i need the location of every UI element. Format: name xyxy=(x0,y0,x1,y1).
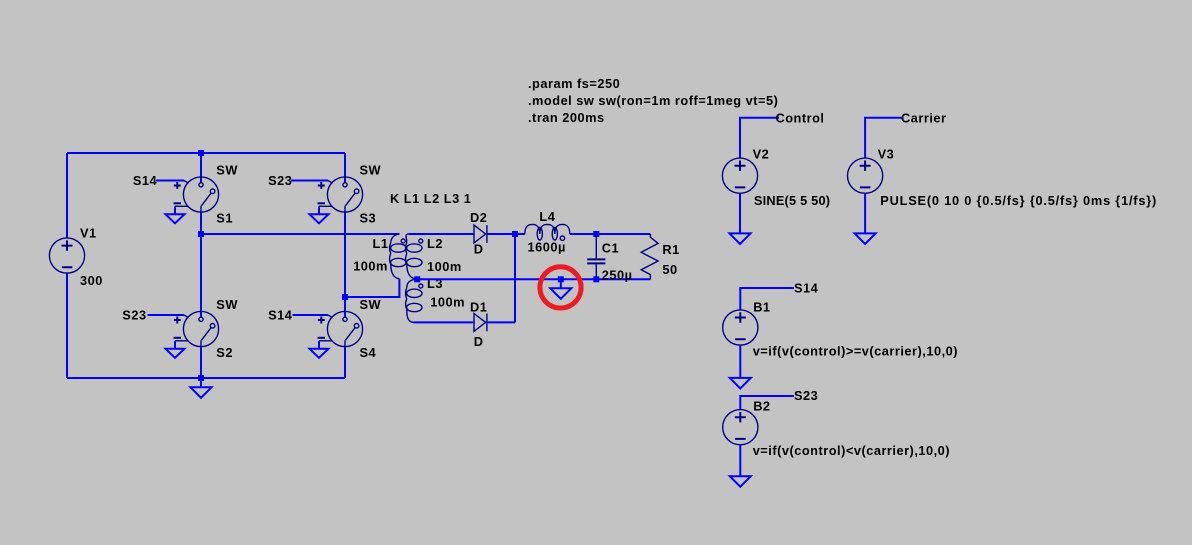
svg-text:C1: C1 xyxy=(602,240,619,255)
wire B2 bottom xyxy=(739,445,741,476)
voltage source V3 xyxy=(848,146,1158,208)
behavioral source B1 xyxy=(723,299,958,358)
wire bottom rail xyxy=(67,377,345,379)
wire V3 bottom xyxy=(864,193,866,233)
wire L3 to D1 anode xyxy=(414,321,475,323)
inductor L4 xyxy=(525,209,570,254)
diode D2 xyxy=(470,210,487,257)
ground (B2) xyxy=(730,476,751,487)
svg-text:SW: SW xyxy=(216,297,238,312)
wire S1 minus to ground xyxy=(174,206,176,214)
ground (V2) xyxy=(730,233,751,244)
node junction D2/D1/L4 xyxy=(512,231,518,237)
svg-text:SW: SW xyxy=(360,162,382,177)
svg-text:SW: SW xyxy=(216,162,238,177)
ground (S1 control) xyxy=(166,214,185,223)
svg-text:.param fs=250: .param fs=250 xyxy=(528,76,620,91)
wire S4 bottom pin xyxy=(344,347,346,378)
svg-text:250µ: 250µ xyxy=(602,268,633,283)
svg-text:50: 50 xyxy=(662,262,677,277)
svg-text:PULSE(0 10 0 {0.5/fs} {0.5/fs}: PULSE(0 10 0 {0.5/fs} {0.5/fs} 0ms {1/fs… xyxy=(880,193,1157,208)
wire S3 control xyxy=(291,180,328,182)
wire S2 minus to ground xyxy=(174,341,176,349)
svg-text:S23: S23 xyxy=(794,388,818,403)
wire S2 bottom pin xyxy=(200,347,202,378)
svg-text:B1: B1 xyxy=(753,299,770,314)
svg-text:D: D xyxy=(474,242,484,257)
wire V3 top xyxy=(865,118,903,158)
node junction C1 bottom xyxy=(593,276,599,282)
wire V1 top xyxy=(66,153,68,238)
annotation red circle xyxy=(540,267,581,308)
svg-text:S23: S23 xyxy=(268,173,292,188)
svg-text:100m: 100m xyxy=(430,295,465,310)
wire S3 top pin xyxy=(344,153,346,183)
voltage source V1 xyxy=(49,226,102,289)
svg-text:V1: V1 xyxy=(80,226,97,241)
svg-text:D: D xyxy=(474,334,484,349)
svg-text:L4: L4 xyxy=(539,209,555,224)
svg-text:S2: S2 xyxy=(216,345,233,360)
wire S4 minus to ground xyxy=(318,341,320,349)
wire top rail xyxy=(67,152,345,154)
svg-text:v=if(v(control)<v(carrier),10,: v=if(v(control)<v(carrier),10,0) xyxy=(753,443,950,458)
node junction output ground xyxy=(558,276,564,282)
node junction bottom rail / S2 / ground xyxy=(198,375,204,381)
wire B1 top xyxy=(740,288,794,310)
svg-text:L2: L2 xyxy=(427,236,443,251)
svg-text:Carrier: Carrier xyxy=(901,110,946,125)
svg-text:V3: V3 xyxy=(878,146,895,161)
node junction middle rail / S1-S2 xyxy=(198,231,204,237)
wire S3 minus to ground xyxy=(318,206,320,214)
svg-text:S4: S4 xyxy=(360,345,377,360)
svg-text:D2: D2 xyxy=(470,210,487,225)
wire L2 to D2 anode xyxy=(408,233,474,235)
svg-text:100m: 100m xyxy=(427,259,462,274)
svg-text:300: 300 xyxy=(80,273,103,288)
svg-text:S14: S14 xyxy=(268,307,293,322)
node junction L4/C1 xyxy=(593,231,599,237)
ground (S3 control) xyxy=(310,214,329,223)
inductor L1 (primary) xyxy=(353,234,406,279)
ground (B1) xyxy=(730,378,751,389)
svg-text:SINE(5 5 50): SINE(5 5 50) xyxy=(754,193,830,208)
wire rectifier vertical D2-D1 xyxy=(514,234,516,322)
voltage source V2 xyxy=(722,146,830,208)
resistor R1 xyxy=(641,234,680,279)
wire V2 bottom xyxy=(739,193,741,233)
node junction center tap L2/L3 xyxy=(414,276,420,282)
switch S3 xyxy=(318,162,382,225)
behavioral source B2 xyxy=(723,398,950,458)
svg-text:Control: Control xyxy=(776,110,825,125)
wire C1 node to R1 xyxy=(596,233,650,235)
svg-text:S1: S1 xyxy=(216,211,233,226)
wire L4 to C1 node xyxy=(570,233,597,235)
wire S1 top pin xyxy=(200,153,202,183)
wire V2 top xyxy=(740,118,779,158)
svg-text:D1: D1 xyxy=(470,300,487,315)
wire node to L4 xyxy=(515,233,525,235)
wire B2 top xyxy=(740,396,794,410)
wire B1 bottom xyxy=(739,345,741,378)
svg-text:V2: V2 xyxy=(753,146,770,161)
svg-text:.tran 200ms: .tran 200ms xyxy=(528,110,605,125)
ground (S4 control) xyxy=(310,349,329,358)
wire L1 bottom lead xyxy=(345,279,399,297)
switch S4 xyxy=(318,297,382,360)
inductor L2 (secondary top) xyxy=(406,234,462,279)
wire S1 bottom pin xyxy=(200,213,202,235)
wire center tap rail xyxy=(417,278,650,280)
svg-text:1600µ: 1600µ xyxy=(528,239,566,254)
ground (S2 control) xyxy=(166,349,185,358)
wire V1 bottom xyxy=(66,273,68,378)
wire D2 cathode to node xyxy=(487,233,515,235)
svg-text:R1: R1 xyxy=(662,242,679,257)
svg-text:L3: L3 xyxy=(427,276,443,291)
svg-text:B2: B2 xyxy=(753,398,770,413)
node junction S3/S4/L1 xyxy=(342,294,348,300)
diode D1 xyxy=(470,300,487,350)
wire S2 control xyxy=(148,314,185,316)
wire S4 control xyxy=(293,314,329,316)
svg-text:v=if(v(control)>=v(carrier),10: v=if(v(control)>=v(carrier),10,0) xyxy=(753,344,958,359)
capacitor C1 xyxy=(587,234,632,283)
svg-text:S3: S3 xyxy=(360,211,377,226)
svg-text:S14: S14 xyxy=(133,173,158,188)
inductor L3 (secondary bottom) xyxy=(406,276,465,322)
wire S2 top pin xyxy=(200,234,202,318)
svg-text:S23: S23 xyxy=(122,307,146,322)
svg-text:S14: S14 xyxy=(794,281,819,296)
wire S3 bottom pin xyxy=(344,213,346,298)
ground (V3) xyxy=(855,233,876,244)
wire S4 top pin xyxy=(344,297,346,318)
switch S2 xyxy=(174,297,239,360)
ground (output, red circled) xyxy=(550,279,571,299)
switch S1 xyxy=(174,162,239,225)
svg-text:K L1 L2 L3 1: K L1 L2 L3 1 xyxy=(390,191,471,206)
svg-text:100m: 100m xyxy=(353,259,388,274)
svg-text:.model sw sw(ron=1m roff=1meg: .model sw sw(ron=1m roff=1meg vt=5) xyxy=(528,93,778,108)
svg-text:L1: L1 xyxy=(373,236,389,251)
wire S1 control xyxy=(156,180,184,182)
svg-text:SW: SW xyxy=(360,297,382,312)
wire middle rail xyxy=(201,233,399,235)
ground (main, bottom rail) xyxy=(191,378,212,398)
wire D1 cathode to node xyxy=(487,321,515,323)
node junction top rail / S1 xyxy=(198,150,204,156)
